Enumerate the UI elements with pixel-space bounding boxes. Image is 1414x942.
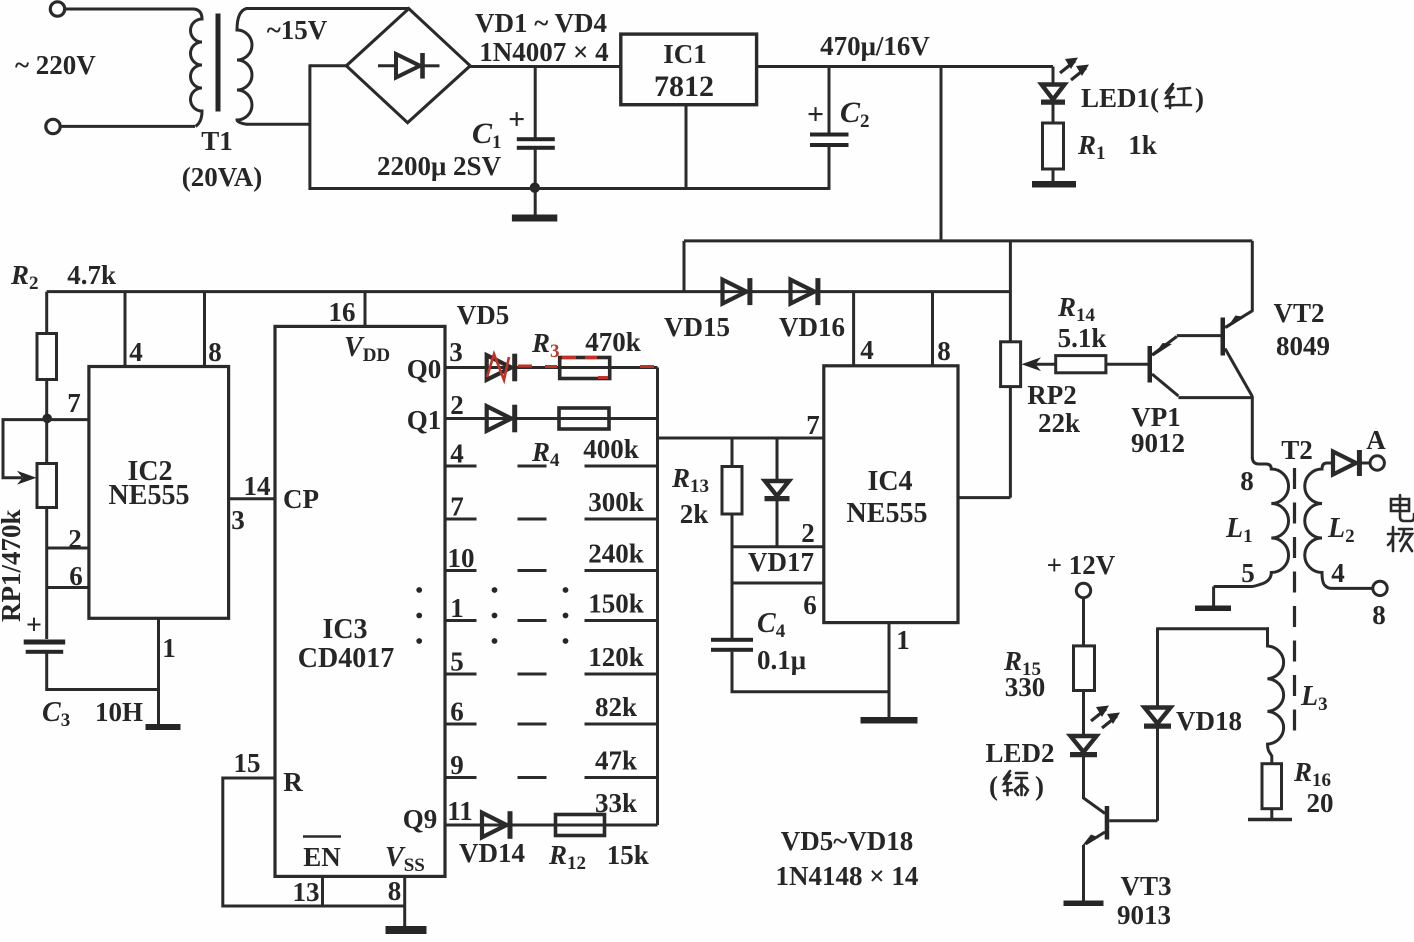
wire T1 secondary top to bridge — [246, 7, 409, 10]
transformer T1 core — [216, 14, 221, 112]
wire RP1 to C3 — [45, 508, 48, 640]
svg-text:8: 8 — [1372, 600, 1386, 630]
svg-text:11: 11 — [447, 796, 473, 826]
wire IC3 pin 1 stub — [445, 619, 477, 622]
wire IC2 pin7 — [47, 418, 89, 421]
wire ladder link row 10 — [585, 569, 658, 572]
wire IC4 pin4 stub — [852, 292, 855, 366]
transformer T2 winding L1 — [1214, 457, 1289, 587]
diode VD17 — [765, 481, 789, 496]
wire +12V down to lower rail — [940, 67, 943, 241]
svg-text:~15V: ~15V — [267, 15, 328, 45]
wire rail link vertical — [683, 241, 686, 293]
wire IC3 pin 10 stub — [445, 569, 477, 572]
svg-text:VD1 ~ VD4: VD1 ~ VD4 — [475, 8, 607, 38]
wire VT3 emitter to ground — [1082, 845, 1085, 902]
svg-text:1: 1 — [896, 625, 910, 655]
wire VT2 emitter down — [1251, 396, 1254, 458]
svg-text:EN: EN — [303, 842, 341, 872]
svg-text:4: 4 — [1331, 558, 1345, 588]
wire ladder link row 7 — [585, 518, 658, 521]
wire R16 to ground — [1270, 809, 1273, 820]
wire bus to IC4 pin7 — [658, 437, 824, 440]
transistor VT3 base bar — [1105, 806, 1110, 840]
wire C4 branch — [731, 583, 734, 640]
wire IC4 pin3 out — [958, 496, 1010, 499]
svg-text:9013: 9013 — [1117, 900, 1171, 930]
transistor VT2 emitter — [1225, 349, 1252, 397]
wire T1 secondary bottom to node — [246, 123, 310, 126]
wire C4 to pin1 — [732, 652, 889, 692]
svg-text:6: 6 — [803, 590, 817, 620]
wire R2 to RP1 — [45, 380, 48, 464]
diode VD14 — [482, 813, 507, 838]
transistor VT2 base bar — [1221, 318, 1226, 356]
svg-text:470μ/16V: 470μ/16V — [820, 31, 930, 61]
transistor VP1 collector — [1152, 374, 1178, 396]
svg-text:10H: 10H — [95, 697, 143, 727]
svg-text:400k: 400k — [583, 434, 639, 464]
resistor R16 — [1262, 764, 1282, 809]
svg-text:16: 16 — [329, 297, 356, 327]
svg-text:1: 1 — [162, 633, 176, 663]
svg-text:(: ( — [989, 771, 998, 801]
wire IC3 pin16 stub — [364, 292, 367, 327]
svg-text:T1: T1 — [201, 126, 233, 156]
wire C2 branch — [828, 67, 831, 135]
wire LED1 to R1 — [1052, 67, 1055, 85]
svg-text:RP1/470k: RP1/470k — [0, 509, 26, 622]
ground symbol L1 pin5 — [1195, 606, 1231, 612]
wire IC4 pin6 — [731, 582, 824, 585]
red scan marks on R3 — [518, 358, 654, 378]
transformer T2 winding L3 — [1268, 627, 1284, 764]
RP1 wiper arrow — [17, 471, 37, 485]
svg-text:VD5: VD5 — [457, 300, 510, 330]
wire Q0 row — [445, 366, 658, 369]
wire IC1 output — [757, 65, 1053, 68]
wire L2 top to diode — [1327, 462, 1333, 465]
wire IC4 pin2 — [731, 545, 824, 548]
junction dot C1 ground rail — [530, 183, 540, 193]
svg-text:VD15: VD15 — [664, 312, 730, 342]
diode VD15 — [723, 280, 747, 304]
svg-text:+: + — [508, 103, 525, 136]
svg-text:14: 14 — [244, 471, 271, 501]
svg-text:47k: 47k — [595, 746, 637, 776]
svg-text:8049: 8049 — [1276, 331, 1330, 361]
svg-text:120k: 120k — [588, 642, 644, 672]
svg-text:4: 4 — [450, 439, 464, 469]
transformer T2 core dashed — [1293, 468, 1296, 744]
wire RP1 wiper loop — [3, 420, 47, 478]
wire diode to A terminal — [1360, 462, 1370, 465]
svg-text:+: + — [26, 610, 42, 641]
wire VD18 to VT3 base — [1156, 728, 1159, 821]
svg-text:Q1: Q1 — [407, 405, 442, 435]
wire C1 to rail — [534, 149, 537, 216]
bridge rectifier VD1-VD4 diamond — [346, 9, 470, 123]
bridge rectifier inner diode — [378, 64, 396, 67]
svg-text:RP2: RP2 — [1027, 380, 1077, 410]
svg-text:LED2: LED2 — [985, 738, 1054, 768]
wire IC2 pin3 to IC3 pin14 — [229, 497, 275, 500]
ellipsis dots ladder — [416, 587, 422, 593]
wire LED2 to VT3 collector — [1082, 753, 1085, 799]
ground symbol IC4 pin1 — [861, 717, 918, 724]
wire IC2 pin4 stub — [124, 292, 127, 367]
svg-text:3: 3 — [231, 505, 245, 535]
transformer T1 secondary winding — [237, 9, 252, 125]
svg-text:300k: 300k — [588, 487, 644, 517]
svg-text:VT3: VT3 — [1120, 871, 1171, 901]
svg-text:VD17: VD17 — [748, 547, 814, 577]
wire AC bottom to T1 primary — [60, 125, 195, 128]
wire VD17 to pin2 — [776, 499, 779, 547]
wire IC3 pin 4 stub — [445, 465, 477, 468]
potentiometer RP2 — [1001, 342, 1021, 387]
svg-text:470k: 470k — [585, 327, 641, 357]
wire RP2 top — [1009, 241, 1012, 342]
label ji — [1388, 527, 1412, 551]
wire VT3 base — [1109, 819, 1157, 822]
svg-text:NE555: NE555 — [109, 480, 190, 511]
terminal circle +12V — [1076, 583, 1090, 597]
svg-text:+: + — [807, 98, 824, 131]
capacitor C1 plates — [517, 137, 555, 141]
svg-text:VD16: VD16 — [779, 312, 845, 342]
wire ladder dash row 9 — [518, 776, 547, 779]
svg-text:2: 2 — [450, 390, 464, 420]
wire Q1 row — [445, 417, 658, 420]
svg-text:R2 4.7k: R2 4.7k — [10, 260, 116, 294]
svg-text:15: 15 — [234, 748, 261, 778]
wire Q9 row — [445, 824, 658, 827]
transformer T2 winding L2 — [1305, 463, 1373, 588]
wire ladder link row 9 — [585, 776, 658, 779]
svg-text:2k: 2k — [680, 499, 709, 529]
wire R15 to LED2 — [1082, 691, 1085, 735]
svg-text:(20VA): (20VA) — [182, 162, 263, 192]
transistor VP1 emitter — [1152, 337, 1177, 356]
wire IC3 pin8 stub — [403, 876, 406, 927]
svg-text:2: 2 — [801, 518, 815, 548]
resistor R13 — [722, 467, 742, 515]
ground symbol R1 — [1032, 181, 1076, 188]
wire ladder dash row 1 — [518, 619, 547, 622]
svg-text:5.1k: 5.1k — [1058, 323, 1107, 353]
svg-text:+ 12V: + 12V — [1047, 550, 1116, 580]
transformer T1 primary winding — [191, 9, 203, 126]
terminal circle A — [1370, 456, 1384, 470]
diode VD5 — [487, 355, 512, 380]
svg-text:VT2: VT2 — [1273, 298, 1324, 328]
diode VD6 — [487, 406, 512, 431]
wire ladder dash row 5 — [518, 673, 547, 676]
LED1 red indicator — [1042, 85, 1065, 100]
wire ladder link row 6 — [585, 723, 658, 726]
svg-text:R: R — [283, 767, 303, 797]
wire oscillator supply rail — [47, 290, 1011, 293]
wire L1 pin5 to ground — [1212, 587, 1215, 607]
terminal circle AC input top — [50, 2, 64, 16]
wire IC3 pin 6 stub — [445, 723, 477, 726]
svg-text:0.1μ: 0.1μ — [757, 645, 806, 675]
svg-text:6: 6 — [450, 697, 464, 727]
wire R13 to pin2 — [731, 514, 734, 547]
svg-text:Q9: Q9 — [403, 804, 438, 834]
wire R1 to ground — [1052, 169, 1055, 182]
wire R2 top — [45, 292, 48, 334]
wire ladder link row 1 — [585, 619, 658, 622]
ground rail power section — [309, 187, 830, 190]
transistor VP1 base bar — [1148, 346, 1153, 383]
wire RP2 bottom — [1009, 387, 1012, 498]
svg-text:1: 1 — [450, 593, 464, 623]
resistor R4 — [559, 408, 609, 429]
wire IC3 pin 5 stub — [445, 673, 477, 676]
svg-text:330: 330 — [1005, 672, 1046, 702]
svg-text:CP: CP — [283, 484, 319, 514]
svg-text:Q0: Q0 — [407, 354, 442, 384]
svg-text:20: 20 — [1307, 788, 1334, 818]
svg-text:1N4007 × 4: 1N4007 × 4 — [479, 37, 608, 67]
wire pin2 to pin6 link — [731, 547, 734, 583]
ground symbol R16 — [1248, 818, 1292, 821]
svg-text:IC1: IC1 — [663, 39, 707, 69]
label hongzi red — [1166, 84, 1191, 108]
svg-text:22k: 22k — [1038, 408, 1080, 438]
wire ladder link row 5 — [585, 673, 658, 676]
svg-text:CD4017: CD4017 — [298, 643, 394, 674]
svg-text:150k: 150k — [588, 589, 644, 619]
resistor R1 — [1043, 123, 1064, 169]
wire R14 to VP1 base — [1106, 363, 1148, 366]
wire L3 top — [1158, 627, 1269, 630]
terminal circle AC input bottom — [46, 119, 60, 133]
wire node down to ground rail — [308, 64, 311, 189]
potentiometer RP1 — [37, 464, 57, 508]
wire IC1 ground pin — [685, 105, 688, 190]
ground symbol IC3 pin8 — [386, 926, 427, 934]
voltage regulator IC1 box — [621, 34, 757, 105]
svg-text:VD5~VD18: VD5~VD18 — [781, 826, 914, 856]
wire ladder dash row 6 — [518, 723, 547, 726]
resistor R14 — [1056, 356, 1106, 373]
svg-text:8: 8 — [937, 336, 951, 366]
counter IC3 box — [275, 326, 445, 876]
svg-text:3: 3 — [449, 337, 463, 367]
svg-text:4: 4 — [860, 335, 874, 365]
wire IC3 pin13 stub — [321, 876, 324, 906]
wire ladder link row 4 — [585, 465, 658, 468]
svg-text:8: 8 — [388, 876, 402, 906]
wire IC4 pin8 stub — [931, 292, 934, 366]
wire C3 to pin1 — [47, 653, 159, 690]
svg-text:8: 8 — [208, 337, 222, 367]
svg-text:T2: T2 — [1281, 435, 1313, 465]
red scan mark on VD5 — [487, 354, 509, 380]
label dian — [1391, 495, 1414, 521]
wire VD17 branch — [776, 438, 779, 481]
resistor R15 — [1074, 646, 1095, 691]
svg-text:VD14: VD14 — [459, 838, 525, 868]
capacitor C2 plates — [810, 133, 849, 137]
wire R13 branch — [731, 438, 734, 467]
ground symbol C1 — [512, 215, 557, 222]
svg-text:IC3: IC3 — [322, 614, 367, 645]
svg-text:9012: 9012 — [1131, 428, 1185, 458]
transistor VT2 collector — [1225, 311, 1252, 328]
terminal circle electrode 8 — [1373, 581, 1387, 595]
wire ladder dash row 4 — [518, 465, 547, 468]
LED2 green indicator — [1071, 736, 1097, 752]
svg-text:9: 9 — [450, 750, 464, 780]
resistor R12 — [556, 815, 605, 836]
ground symbol VT3 — [1064, 901, 1104, 907]
wire ladder dash row 10 — [518, 569, 547, 572]
capacitor C3 plates — [24, 640, 65, 645]
svg-text:5: 5 — [1241, 558, 1255, 588]
svg-text:IC4: IC4 — [867, 466, 912, 497]
wire AC top to T1 primary — [65, 8, 194, 11]
junction dot pin7 node — [42, 414, 52, 424]
wire bridge output to IC1 — [470, 65, 621, 68]
svg-text:VD18: VD18 — [1176, 706, 1242, 736]
svg-text:LED1(: LED1( — [1081, 83, 1159, 113]
wire C2 to rail — [828, 147, 831, 190]
svg-text:10: 10 — [448, 543, 475, 573]
wire IC4 pin1 — [888, 623, 891, 718]
timer IC4 box — [824, 366, 958, 623]
resistor R3 — [560, 358, 610, 379]
svg-text:NE555: NE555 — [847, 498, 928, 529]
svg-text:82k: 82k — [595, 692, 637, 722]
svg-text:7: 7 — [806, 410, 820, 440]
svg-text:): ) — [1195, 83, 1204, 113]
svg-text:): ) — [1035, 771, 1044, 801]
svg-text:2: 2 — [68, 524, 82, 554]
wire IC3 pin15 — [223, 778, 405, 906]
wire IC3 pin 7 stub — [445, 518, 477, 521]
svg-text:2200μ 2SV: 2200μ 2SV — [377, 151, 502, 181]
svg-text:240k: 240k — [588, 539, 644, 569]
timer IC2 box — [89, 367, 229, 619]
svg-text:A: A — [1366, 425, 1386, 455]
svg-text:6: 6 — [69, 561, 83, 591]
wire IC2 pin2 — [47, 547, 89, 550]
transistor VT3 emitter — [1086, 832, 1106, 844]
svg-text:13: 13 — [293, 877, 320, 907]
diode VD18 — [1145, 708, 1171, 724]
RP2 wiper arrow — [1022, 357, 1042, 371]
svg-text:7: 7 — [450, 492, 464, 522]
wire +12V to R15 — [1082, 598, 1085, 647]
svg-text:~ 220V: ~ 220V — [15, 50, 96, 80]
svg-text:4: 4 — [129, 337, 143, 367]
wire ladder dash row 7 — [518, 518, 547, 521]
wire VD18 branch top — [1156, 627, 1159, 709]
resistor R2 — [37, 334, 57, 380]
transistor VT3 collector — [1084, 798, 1106, 814]
svg-text:7: 7 — [67, 388, 81, 418]
wire bridge left vertex — [310, 64, 346, 67]
svg-text:7812: 7812 — [654, 70, 714, 103]
wire IC2 pin6 — [47, 586, 89, 589]
wire C1 branch — [534, 67, 537, 140]
svg-text:5: 5 — [450, 647, 464, 677]
svg-text:8: 8 — [1240, 466, 1254, 496]
wire rail upper — [684, 239, 1252, 242]
wire ladder bus — [656, 368, 659, 826]
svg-text:1N4148 × 14: 1N4148 × 14 — [776, 861, 919, 891]
ground symbol IC2 pin1 — [146, 724, 181, 730]
wire IC3 pin 9 stub — [445, 776, 477, 779]
wire IC2 pin1 — [157, 618, 160, 725]
svg-text:33k: 33k — [595, 788, 637, 818]
wire VT2 collector to rail — [1251, 241, 1254, 312]
capacitor C4 plates — [711, 638, 753, 642]
wire IC2 pin8 stub — [203, 292, 206, 367]
diode VD16 — [791, 280, 815, 304]
output diode to A — [1333, 452, 1356, 475]
